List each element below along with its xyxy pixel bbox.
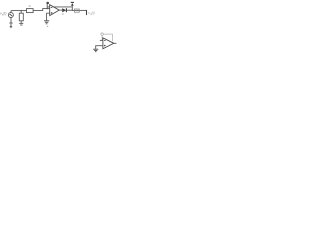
wire stub to shunt resistor: [20, 11, 22, 14]
diode D2 vertical: [71, 2, 74, 10]
wire shunt to ground: [20, 21, 22, 23]
wire U2 output stub: [114, 42, 117, 44]
ground under op-amp: [44, 21, 49, 24]
wire output node to terminal: [72, 9, 86, 11]
node inverting input: [47, 8, 48, 9]
U2 minus sign: [104, 39, 106, 41]
op-amp U1: [50, 5, 60, 16]
label at top of riser: [46, 2, 49, 4]
wire opamp output: [59, 9, 62, 11]
wire main line left: [11, 10, 27, 12]
wire source bottom lead: [10, 18, 12, 26]
wire feedback riser: [46, 3, 48, 9]
ground under U2: [93, 49, 98, 52]
node output junction: [72, 10, 73, 11]
resistor R2 shunt box: [19, 13, 23, 21]
wire U2 lower input: [96, 46, 103, 49]
ground arrow under source: [10, 26, 13, 29]
wire source top lead: [10, 11, 12, 13]
wire feedback top: [47, 6, 72, 8]
source VS circle: [8, 13, 13, 18]
diode D1 series: [62, 8, 66, 12]
svg-text:R: R: [29, 4, 32, 8]
speck below ground: [47, 25, 48, 28]
op-amp U2: [103, 38, 114, 49]
wire R1 to opamp: [33, 9, 50, 11]
svg-text:vs(t): vs(t): [0, 12, 7, 17]
U1 minus sign: [51, 7, 53, 9]
svg-text:vo(t): vo(t): [88, 11, 94, 16]
terminal lead down: [86, 10, 88, 15]
resistor R1 series box: [27, 9, 34, 13]
wire D1 to output node: [67, 9, 72, 11]
ground under shunt resistor: [19, 23, 23, 25]
wire noninverting input to ground: [47, 13, 50, 20]
load box RL: [74, 9, 79, 12]
node junction at R shunt: [21, 10, 22, 11]
svg-text:D: D: [62, 12, 64, 16]
U2 plus sign: [104, 45, 106, 47]
wire U2 upper input stub: [100, 39, 103, 41]
op-amp U2 feedback loop: [101, 33, 113, 41]
source polarity bar: [9, 22, 13, 24]
U1 plus sign: [51, 12, 53, 14]
